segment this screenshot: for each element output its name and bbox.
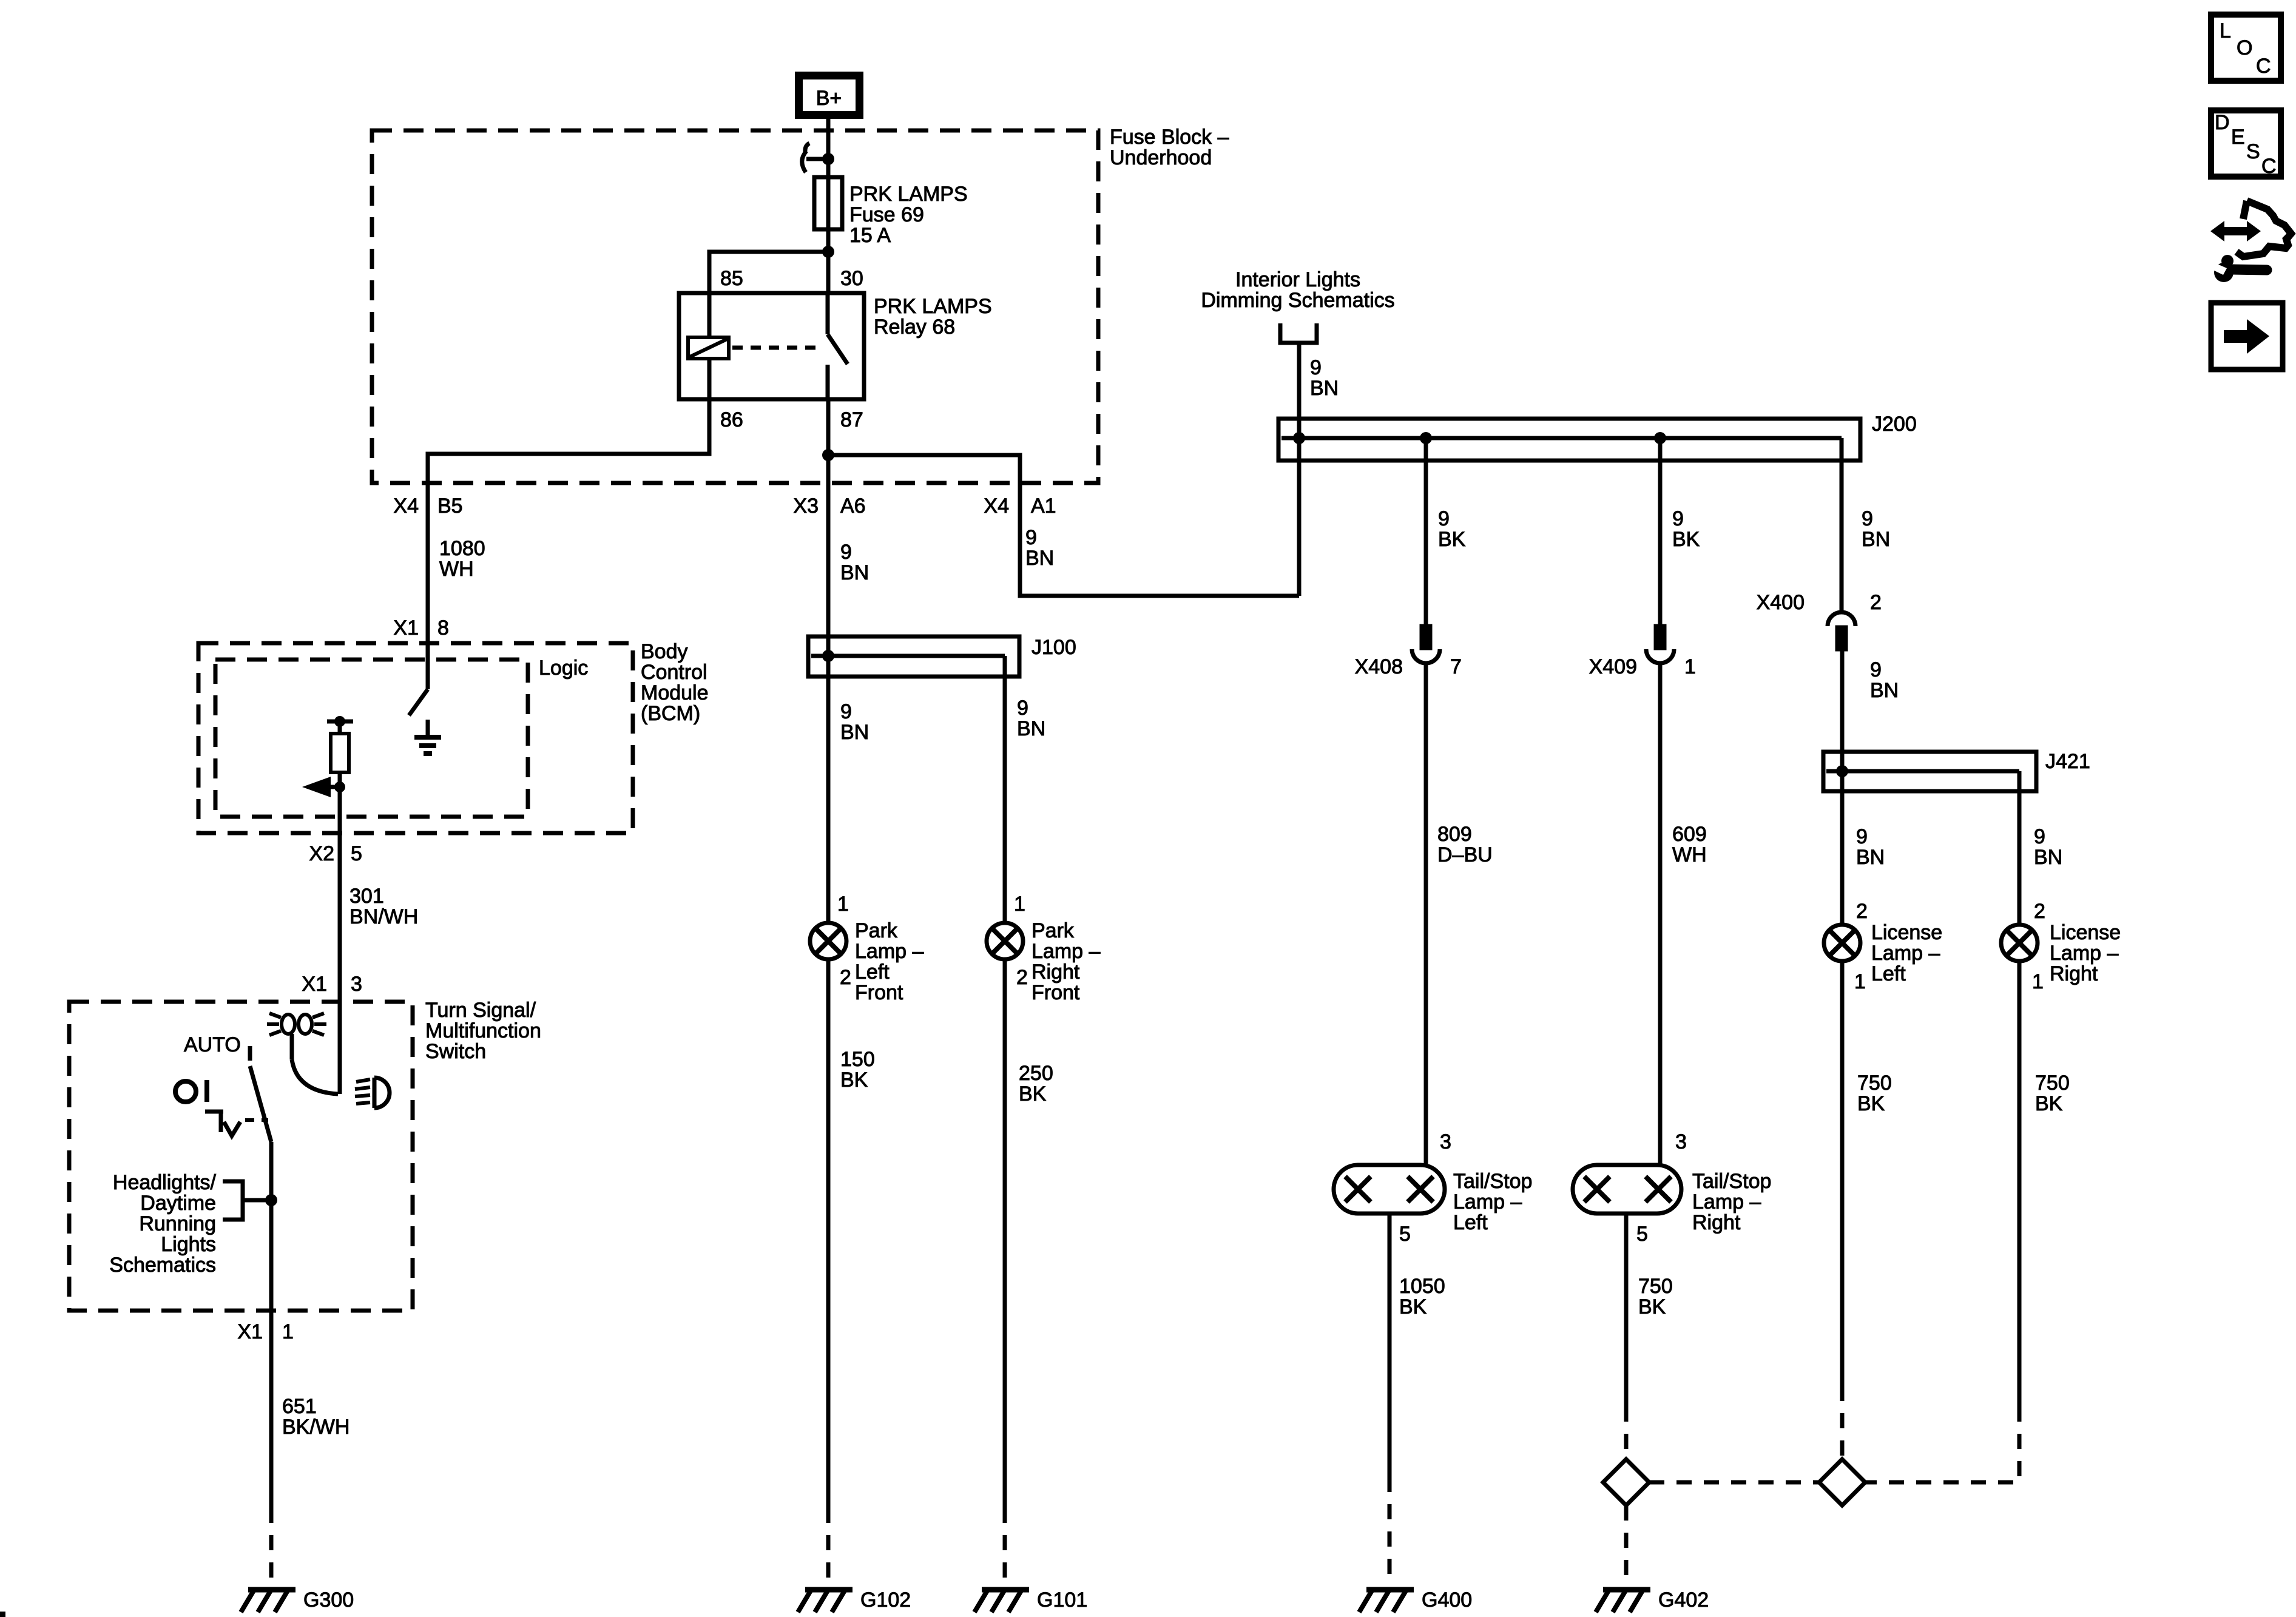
- park lamps position icon: [267, 1013, 326, 1035]
- wire B+ to fuse 69: [826, 119, 831, 177]
- connector labels X3 A6: [793, 495, 865, 518]
- page corner mark: [0, 1612, 5, 1617]
- wire park lamp right to G101: [1003, 959, 1007, 1508]
- svg-text:J421: J421: [2045, 750, 2090, 773]
- park detent position icon: [205, 1112, 240, 1136]
- svg-text:609: 609: [1672, 823, 1707, 846]
- svg-text:S: S: [2246, 140, 2260, 163]
- svg-text:Daytime: Daytime: [140, 1192, 216, 1215]
- wire J200 to X408: [1424, 438, 1428, 626]
- svg-text:Running: Running: [139, 1212, 216, 1235]
- splice pack J421: [1823, 752, 2036, 791]
- forward arrow icon box: [2211, 303, 2283, 370]
- svg-text:1050: 1050: [1399, 1275, 1445, 1298]
- wire label 750 BK (tail right): [1638, 1275, 1673, 1318]
- node: J421 splice: [1836, 765, 1848, 777]
- svg-text:D: D: [2215, 111, 2230, 134]
- svg-text:BN: BN: [840, 561, 869, 584]
- wire input X1-8 into BCM: [426, 643, 430, 689]
- dashed wire to G102: [826, 1508, 831, 1585]
- svg-text:BN: BN: [1862, 528, 1890, 551]
- label: License Lamp - Left: [1871, 921, 1942, 985]
- turn signal / multifunction switch dashed box: [69, 1002, 413, 1311]
- svg-text:Fuse Block –: Fuse Block –: [1110, 126, 1229, 149]
- wire label 9 BN (below X400): [1870, 658, 1899, 702]
- svg-text:9: 9: [1017, 697, 1028, 720]
- node: junction fuse output to relay pins 30/85: [822, 246, 834, 258]
- BCM internal supply T-bar: [327, 720, 353, 724]
- svg-text:PRK LAMPS: PRK LAMPS: [874, 295, 992, 318]
- svg-text:X4: X4: [984, 495, 1009, 518]
- svg-text:3: 3: [351, 973, 362, 996]
- AUTO contact tick: [248, 1046, 252, 1061]
- svg-text:750: 750: [1638, 1275, 1673, 1298]
- svg-text:License: License: [1871, 921, 1942, 944]
- svg-text:BK: BK: [1638, 1295, 1666, 1318]
- BCM logic inner dashed box: [215, 660, 528, 817]
- svg-text:PRK LAMPS: PRK LAMPS: [849, 183, 968, 206]
- wire relay 86 to X4 B5: [428, 399, 709, 643]
- node: output junction with direction arrow: [334, 781, 345, 792]
- BCM internal resistor: [331, 721, 349, 787]
- svg-text:BN: BN: [2034, 846, 2062, 869]
- svg-text:X400: X400: [1757, 591, 1805, 614]
- svg-text:BN: BN: [1025, 547, 1054, 570]
- svg-text:750: 750: [2035, 1072, 2070, 1095]
- svg-text:Lights: Lights: [161, 1233, 216, 1256]
- svg-text:2: 2: [840, 966, 851, 989]
- wire X408 to tail/stop lamp left: [1424, 663, 1428, 1165]
- wire branch to X4 A1: [828, 455, 1299, 596]
- headlamp position icon: [355, 1078, 390, 1108]
- svg-text:1: 1: [837, 893, 849, 916]
- svg-text:Left: Left: [1453, 1211, 1488, 1234]
- connector labels X1 1: [237, 1320, 294, 1343]
- svg-text:WH: WH: [439, 558, 474, 581]
- node: J100 splice: [822, 650, 834, 662]
- wire label 609 WH: [1672, 823, 1707, 866]
- dashed wire to G400: [1388, 1477, 1392, 1585]
- splice diamond (G402 junction): [1603, 1459, 1649, 1505]
- headlights off-page bracket: [223, 1181, 271, 1220]
- body control module outer dashed box: [198, 643, 633, 833]
- wire X400 to J421 and license lamp left: [1840, 649, 1845, 925]
- svg-text:9: 9: [1856, 825, 1868, 848]
- ground G400: [1359, 1590, 1414, 1612]
- wire label 809 D-BU: [1437, 823, 1493, 866]
- battery feed B+ terminal: [799, 76, 860, 115]
- license lamp right: [2001, 925, 2038, 961]
- wire X409 to tail/stop lamp right: [1658, 663, 1663, 1165]
- wire label 9 BK (X408): [1438, 507, 1466, 551]
- svg-text:9: 9: [1310, 356, 1322, 379]
- svg-text:L: L: [2220, 19, 2231, 42]
- node: resistor top: [334, 716, 345, 727]
- fuse block underhood dashed box: [372, 130, 1098, 483]
- bus tap clip symbol: [802, 143, 823, 172]
- relay actuation dashed link: [732, 346, 823, 350]
- svg-text:86: 86: [720, 408, 743, 431]
- switch output wire to X1-1: [269, 1142, 274, 1508]
- label: Tail/Stop Lamp - Right: [1692, 1170, 1771, 1234]
- connector labels X4 B5: [393, 495, 462, 518]
- svg-text:X408: X408: [1355, 655, 1403, 678]
- svg-text:9: 9: [840, 700, 852, 723]
- svg-text:Lamp –: Lamp –: [1871, 942, 1940, 965]
- svg-text:BK: BK: [840, 1068, 868, 1092]
- svg-text:Park: Park: [1032, 919, 1075, 942]
- svg-text:Control: Control: [641, 661, 707, 684]
- svg-text:15 A: 15 A: [849, 224, 891, 247]
- svg-text:Relay 68: Relay 68: [874, 316, 955, 339]
- svg-text:750: 750: [1857, 1072, 1892, 1095]
- wire label 9 BK (X409): [1672, 507, 1700, 551]
- svg-text:Right: Right: [1692, 1211, 1741, 1234]
- svg-text:Underhood: Underhood: [1110, 146, 1212, 169]
- svg-text:License: License: [2050, 921, 2121, 944]
- svg-text:BK: BK: [1672, 528, 1700, 551]
- svg-text:C: C: [2256, 55, 2271, 78]
- svg-text:Schematics: Schematics: [109, 1254, 216, 1277]
- OFF position icon: [175, 1080, 207, 1102]
- svg-text:85: 85: [720, 267, 743, 290]
- svg-text:X1: X1: [393, 616, 419, 640]
- svg-text:1: 1: [1014, 893, 1025, 916]
- dashed wire diamond to G402: [1624, 1505, 1629, 1585]
- body repair icon (car outline, double arrow, wrench): [2210, 201, 2291, 282]
- svg-text:Right: Right: [1032, 960, 1080, 984]
- svg-text:Lamp –: Lamp –: [1032, 940, 1100, 963]
- ground G101: [974, 1590, 1029, 1612]
- svg-text:87: 87: [840, 408, 863, 431]
- park lamp left front: [810, 923, 846, 959]
- svg-text:Lamp –: Lamp –: [2050, 942, 2118, 965]
- svg-text:Front: Front: [855, 981, 903, 1004]
- wire dimming feed down to J200 and to A1 rail: [1297, 343, 1302, 596]
- wire label 1050 BK: [1399, 1275, 1445, 1318]
- svg-text:X4: X4: [393, 495, 419, 518]
- svg-text:9: 9: [1870, 658, 1882, 681]
- dashed wire diamond1 to diamond2: [1649, 1480, 1819, 1485]
- svg-text:X1: X1: [237, 1320, 263, 1343]
- svg-text:2: 2: [2034, 900, 2045, 923]
- svg-text:9: 9: [2034, 825, 2045, 848]
- dashed wire to G300: [269, 1508, 274, 1585]
- svg-text:BN: BN: [1856, 846, 1885, 869]
- wire label 9 BN (A1): [1025, 526, 1054, 570]
- label: Park Lamp - Right Front: [1032, 919, 1100, 1004]
- wire label 9 BN (park left): [840, 700, 869, 744]
- svg-text:BK: BK: [1857, 1092, 1885, 1115]
- svg-text:9: 9: [1862, 507, 1873, 530]
- svg-text:8: 8: [437, 616, 449, 640]
- node: J200 splice to X409 wire: [1654, 432, 1666, 444]
- svg-text:BN: BN: [1310, 377, 1339, 400]
- park lamp right front: [987, 923, 1023, 959]
- label: Turn Signal/ Multifunction Switch: [425, 999, 541, 1063]
- svg-text:Headlights/: Headlights/: [113, 1171, 217, 1194]
- svg-text:9: 9: [840, 541, 852, 564]
- label: Fuse Block - Underhood: [1110, 126, 1229, 169]
- node: J200 splice to X408 wire: [1420, 432, 1432, 444]
- svg-text:Module: Module: [641, 681, 709, 704]
- LOC icon box: [2211, 15, 2281, 81]
- svg-text:1080: 1080: [439, 537, 485, 560]
- svg-text:X409: X409: [1589, 655, 1637, 678]
- svg-text:Multifunction: Multifunction: [425, 1019, 541, 1042]
- svg-text:G300: G300: [303, 1588, 354, 1612]
- svg-text:E: E: [2231, 126, 2245, 149]
- wire label 9 BN (dimming): [1310, 356, 1339, 400]
- svg-text:9: 9: [1438, 507, 1450, 530]
- wire label 750 BK (license right): [2035, 1072, 2070, 1115]
- svg-text:G102: G102: [860, 1588, 911, 1612]
- splice pack J100: [808, 636, 1019, 677]
- svg-text:G402: G402: [1658, 1588, 1709, 1612]
- node: headlights tap: [265, 1194, 277, 1206]
- ground G402: [1596, 1590, 1650, 1612]
- connector labels X2 5: [309, 842, 362, 865]
- wire label 9 BN (X400 above): [1862, 507, 1890, 551]
- svg-text:Tail/Stop: Tail/Stop: [1692, 1170, 1771, 1193]
- svg-text:651: 651: [282, 1395, 317, 1418]
- dashed wire to splice diamond: [1624, 1406, 1629, 1459]
- svg-text:Right: Right: [2050, 962, 2098, 985]
- BCM internal switch blade: [409, 689, 428, 715]
- wire label 9 BN (license right): [2034, 825, 2062, 869]
- dashed wire license right corner: [1865, 1406, 2019, 1482]
- off-page bracket to dimming schematics: [1280, 323, 1317, 343]
- svg-text:J200: J200: [1872, 413, 1917, 436]
- connector labels X4 A1: [984, 495, 1056, 518]
- svg-text:5: 5: [1636, 1223, 1648, 1246]
- svg-text:3: 3: [1440, 1130, 1451, 1153]
- wire tail/stop left pin5 to G400: [1388, 1214, 1392, 1477]
- svg-text:Dimming Schematics: Dimming Schematics: [1201, 289, 1394, 312]
- svg-text:Body: Body: [641, 640, 688, 663]
- label: Tail/Stop Lamp - Left: [1453, 1170, 1532, 1234]
- svg-text:9: 9: [1672, 507, 1684, 530]
- svg-text:A1: A1: [1031, 495, 1056, 518]
- connector labels X400 2: [1757, 591, 1882, 614]
- svg-text:A6: A6: [840, 495, 866, 518]
- svg-text:BN/WH: BN/WH: [349, 905, 418, 928]
- connector labels X408 7: [1355, 655, 1462, 678]
- svg-text:Left: Left: [1871, 962, 1906, 985]
- svg-text:X1: X1: [302, 973, 327, 996]
- svg-text:809: 809: [1437, 823, 1472, 846]
- wire park lamp left to G102: [826, 959, 831, 1508]
- wire label 9 BN (A6): [840, 541, 869, 584]
- rotary contact stub and arc: [292, 1034, 338, 1094]
- dashed wire to G101: [1003, 1508, 1007, 1585]
- in-line connector X400 pin 2: [1828, 612, 1855, 649]
- svg-text:1: 1: [2032, 970, 2044, 993]
- switch blade: [250, 1066, 271, 1142]
- tail/stop lamp left: [1334, 1165, 1445, 1214]
- svg-text:Fuse 69: Fuse 69: [849, 203, 924, 226]
- svg-text:BN: BN: [840, 721, 869, 744]
- svg-text:Tail/Stop: Tail/Stop: [1453, 1170, 1532, 1193]
- dashed wire license left to splice diamond 2: [1840, 1386, 1845, 1459]
- wire license left down: [1840, 961, 1845, 1386]
- DESC icon box: [2211, 110, 2281, 178]
- wire BCM X2-5 output down: [338, 787, 342, 1094]
- label: PRK LAMPS Fuse 69 15 A: [849, 183, 968, 247]
- wire label 750 BK (license left): [1857, 1072, 1892, 1115]
- svg-text:BK: BK: [1438, 528, 1466, 551]
- wire license right down: [2017, 961, 2022, 1406]
- label: Interior Lights Dimming Schematics: [1201, 268, 1394, 312]
- label: Body Control Module (BCM): [641, 640, 709, 725]
- wire label 651 BK/WH: [282, 1395, 349, 1439]
- relay K68 PRK LAMPS box: [679, 293, 864, 399]
- connector labels X1 3: [302, 973, 362, 996]
- wire J100 to park lamp right: [1003, 656, 1007, 923]
- license lamp left: [1824, 925, 1860, 961]
- svg-text:1: 1: [282, 1320, 294, 1343]
- ground G300: [241, 1590, 295, 1612]
- wire label 250 BK: [1019, 1062, 1053, 1106]
- svg-text:BK: BK: [1399, 1295, 1427, 1318]
- svg-text:150: 150: [840, 1048, 875, 1071]
- svg-text:Turn Signal/: Turn Signal/: [425, 999, 536, 1022]
- svg-text:Switch: Switch: [425, 1040, 486, 1063]
- svg-text:5: 5: [351, 842, 362, 865]
- svg-text:X3: X3: [793, 495, 819, 518]
- svg-text:D–BU: D–BU: [1437, 843, 1493, 866]
- svg-text:G400: G400: [1422, 1588, 1472, 1612]
- wire label 1080 WH: [439, 537, 485, 581]
- svg-text:G101: G101: [1037, 1588, 1087, 1612]
- signal direction arrow: [302, 777, 340, 797]
- svg-text:Lamp –: Lamp –: [855, 940, 923, 963]
- node: J200 splice to dimming wire: [1293, 432, 1305, 444]
- svg-text:2: 2: [1856, 900, 1868, 923]
- svg-text:301: 301: [349, 885, 384, 908]
- svg-text:7: 7: [1450, 655, 1462, 678]
- ground G102: [798, 1590, 853, 1612]
- svg-text:Lamp –: Lamp –: [1692, 1190, 1761, 1214]
- wire label 9 BN (license left): [1856, 825, 1885, 869]
- svg-text:Interior Lights: Interior Lights: [1235, 268, 1360, 291]
- in-line connector X408 pin 7: [1412, 626, 1440, 663]
- node: bus tap junction: [822, 153, 834, 165]
- wire relay 87 down (X3 A6): [826, 399, 831, 923]
- splice pack J200: [1278, 419, 1860, 461]
- svg-text:BK: BK: [1019, 1082, 1047, 1106]
- tail/stop lamp right: [1573, 1165, 1681, 1214]
- svg-text:O: O: [2237, 36, 2252, 59]
- wire label 150 BK: [840, 1048, 875, 1092]
- svg-text:1: 1: [1684, 655, 1696, 678]
- svg-text:5: 5: [1399, 1223, 1411, 1246]
- svg-text:Left: Left: [855, 960, 890, 984]
- svg-text:BK/WH: BK/WH: [282, 1416, 349, 1439]
- svg-text:3: 3: [1675, 1130, 1687, 1153]
- fuse F69 PRK LAMPS 15A: [814, 177, 842, 293]
- BCM internal ground: [414, 720, 441, 754]
- svg-text:WH: WH: [1672, 843, 1707, 866]
- wire J200 to X400: [1840, 438, 1844, 613]
- connector labels X409 1: [1589, 655, 1696, 678]
- svg-text:J100: J100: [1032, 636, 1076, 659]
- label: License Lamp - Right: [2050, 921, 2121, 985]
- relay switch contact 30-87: [828, 293, 848, 399]
- wire J200 to X409: [1658, 438, 1663, 626]
- svg-text:2: 2: [1016, 966, 1028, 989]
- svg-text:Park: Park: [855, 919, 898, 942]
- svg-text:250: 250: [1019, 1062, 1053, 1085]
- svg-text:X2: X2: [309, 842, 334, 865]
- svg-text:9: 9: [1025, 526, 1037, 549]
- svg-text:(BCM): (BCM): [641, 702, 700, 725]
- label: PRK LAMPS Relay 68: [874, 295, 992, 339]
- wire label 9 BN (park right): [1017, 697, 1045, 740]
- svg-text:2: 2: [1870, 591, 1882, 614]
- label: Park Lamp - Left Front: [855, 919, 923, 1004]
- wire to relay pin 85: [709, 252, 828, 293]
- detent dashed link: [245, 1118, 268, 1122]
- label: Headlights/Daytime Running Lights Schematics: [109, 1171, 216, 1277]
- splice diamond 2: [1819, 1459, 1865, 1505]
- node: junction 87 to A1 branch: [822, 449, 834, 461]
- in-line connector X409 pin 1: [1646, 626, 1674, 663]
- wire tail/stop right pin5 down: [1624, 1214, 1629, 1406]
- svg-text:B+: B+: [816, 87, 842, 110]
- svg-text:BK: BK: [2035, 1092, 2063, 1115]
- svg-text:30: 30: [840, 267, 863, 290]
- svg-text:B5: B5: [437, 495, 463, 518]
- svg-text:Lamp –: Lamp –: [1453, 1190, 1522, 1214]
- svg-text:C: C: [2261, 155, 2277, 178]
- svg-text:1: 1: [1854, 970, 1866, 993]
- relay coil: [688, 293, 729, 399]
- svg-text:BN: BN: [1870, 679, 1899, 702]
- svg-text:BN: BN: [1017, 717, 1045, 740]
- wire J421 to license lamp right: [2017, 771, 2022, 925]
- svg-text:Front: Front: [1032, 981, 1080, 1004]
- connector labels X1 8: [393, 616, 449, 640]
- svg-text:AUTO: AUTO: [184, 1033, 241, 1056]
- wire label 301 BN/WH: [349, 885, 418, 928]
- svg-text:Logic: Logic: [539, 657, 588, 680]
